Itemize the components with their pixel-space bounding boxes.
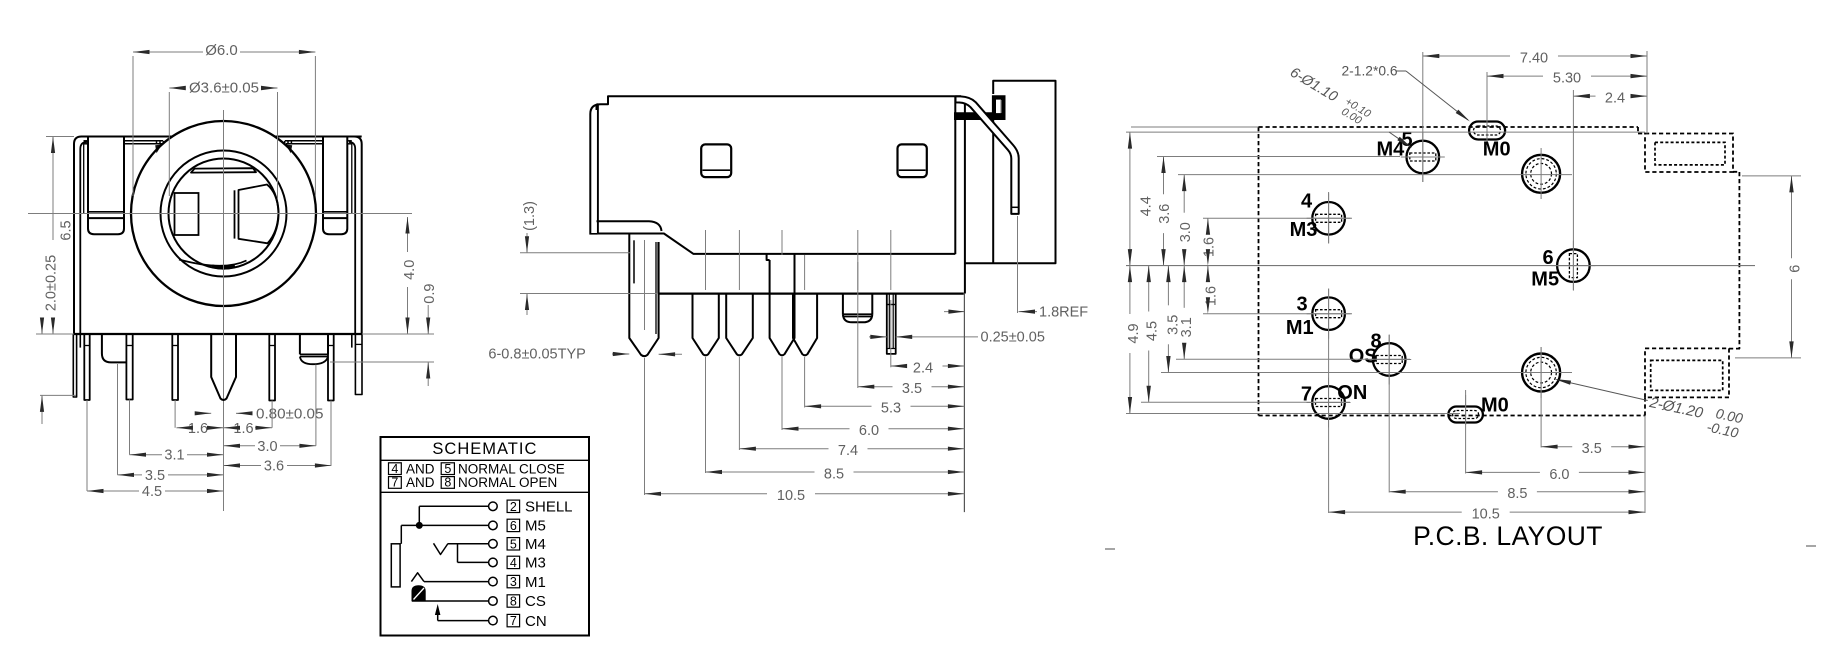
dim 3.0 pcb <box>1183 175 1185 213</box>
pcb bottom-right tab <box>1645 348 1729 397</box>
svg-text:3.5: 3.5 <box>145 468 165 484</box>
dim chain side <box>891 365 904 367</box>
pcb slot M0 bottom <box>1448 407 1483 423</box>
side view: right edge <box>954 96 956 254</box>
dim Ø3.6±0.05 <box>169 87 180 89</box>
svg-text:Ø3.6±0.05: Ø3.6±0.05 <box>189 80 259 97</box>
dim 4.5 <box>87 490 139 492</box>
svg-text:6.5: 6.5 <box>58 220 74 240</box>
svg-text:CS: CS <box>525 593 546 610</box>
dim 6.0 bottom pcb <box>1466 471 1540 473</box>
front view: right flange lug below body <box>300 334 328 354</box>
side ext lines from pins <box>644 358 646 495</box>
dim 3.1 <box>130 454 163 456</box>
front view: left mounting lug <box>88 137 124 235</box>
svg-text:M4: M4 <box>525 536 546 553</box>
dim 3.0 <box>224 445 256 447</box>
dim 0.80±0.05 <box>196 412 211 414</box>
front view: ring circle <box>161 151 287 277</box>
svg-text:8: 8 <box>510 595 517 609</box>
side view: M0 side lug <box>842 294 844 315</box>
dim Ø6.0 <box>133 51 203 53</box>
svg-text:4: 4 <box>391 462 398 476</box>
side view: PCB plate <box>965 81 1056 263</box>
side view: thin pin (0.25) <box>887 294 896 354</box>
side view: pin B <box>693 294 719 356</box>
dim 8.5 pcb <box>1389 491 1498 493</box>
pcb right edge <box>1738 172 1740 349</box>
pcb slot M0 top <box>1469 122 1505 140</box>
svg-text:M5: M5 <box>525 518 546 535</box>
side view ext line back edge <box>963 294 965 512</box>
svg-text:5.30: 5.30 <box>1553 70 1581 86</box>
svg-text:6.0: 6.0 <box>859 423 879 439</box>
front view: right mounting lug <box>323 137 347 235</box>
svg-text:3.1: 3.1 <box>164 448 184 464</box>
pcb ext lines horizontal <box>1131 126 1259 128</box>
svg-text:P.C.B. LAYOUT: P.C.B. LAYOUT <box>1413 521 1603 551</box>
svg-text:4.5: 4.5 <box>1145 321 1161 341</box>
svg-text:Ø6.0: Ø6.0 <box>205 42 238 59</box>
svg-text:1.8REF: 1.8REF <box>1039 305 1088 321</box>
side view: base plate bottom <box>658 293 964 295</box>
side view: pin E <box>793 294 817 356</box>
svg-text:7: 7 <box>391 476 398 490</box>
svg-text:3: 3 <box>1297 294 1308 316</box>
pcb hole 4/M3 <box>1312 202 1345 235</box>
svg-text:OS: OS <box>1349 346 1378 368</box>
svg-text:SHELL: SHELL <box>525 499 573 516</box>
svg-text:10.5: 10.5 <box>777 488 805 504</box>
svg-text:2.0±0.25: 2.0±0.25 <box>44 255 60 311</box>
svg-text:M1: M1 <box>525 574 546 591</box>
front view: hole circle (3.6) <box>169 159 279 269</box>
svg-text:0.80±0.05: 0.80±0.05 <box>256 406 323 423</box>
svg-text:M0: M0 <box>1481 394 1509 416</box>
dim 4.5 pcb <box>1148 266 1150 312</box>
front view: sleeve arcs at hole bottom <box>179 260 247 266</box>
pcb hole 3/M1 <box>1312 297 1345 330</box>
svg-text:8: 8 <box>444 476 451 490</box>
dim 0.25±0.05 <box>869 336 887 338</box>
svg-text:M1: M1 <box>1286 317 1314 339</box>
svg-text:1.6: 1.6 <box>1202 237 1218 257</box>
svg-text:4.0: 4.0 <box>402 260 418 280</box>
front view: tip contact bar <box>191 168 256 172</box>
side view: back wall <box>964 101 966 294</box>
svg-text:3.5: 3.5 <box>1582 441 1602 457</box>
svg-text:3.5: 3.5 <box>1166 315 1182 335</box>
dim 3.6 <box>224 465 262 467</box>
schematic terminals <box>489 502 498 511</box>
side view: pin C <box>726 294 753 356</box>
schematic header rows <box>389 463 402 475</box>
front view: left flange lug below body <box>102 334 127 362</box>
schematic CS cam (filled) <box>412 586 425 601</box>
dim 10.5 pcb <box>1329 511 1462 513</box>
pcb bottom edge <box>1644 397 1646 415</box>
svg-text:4.4: 4.4 <box>1139 196 1155 216</box>
svg-text:7.40: 7.40 <box>1520 50 1548 66</box>
front view: right contact <box>239 185 279 244</box>
front view: left contact window <box>175 193 199 235</box>
side view: bracket dark bar <box>954 112 1006 120</box>
svg-text:4: 4 <box>510 556 517 570</box>
svg-text:M3: M3 <box>1290 219 1318 241</box>
dim 1.6 lower <box>1207 266 1209 277</box>
svg-text:6: 6 <box>510 519 517 533</box>
side view: bracket hook <box>992 95 1006 120</box>
front view: jack body outline <box>89 136 172 138</box>
dim 3.6 pcb <box>1163 157 1165 195</box>
dim 6 right <box>1791 176 1793 258</box>
dim 4.4 <box>1129 132 1131 266</box>
side view: body outline <box>589 96 961 233</box>
dim 2.4 pcb <box>1573 95 1595 97</box>
svg-text:NORMAL CLOSE: NORMAL CLOSE <box>458 461 565 476</box>
schematic M1 contact <box>411 573 424 582</box>
svg-text:(1.3): (1.3) <box>522 201 538 231</box>
svg-text:M0: M0 <box>1483 138 1511 160</box>
svg-text:2.4: 2.4 <box>913 360 933 376</box>
pcb top-right tab <box>1645 134 1733 173</box>
pcb hole 8/OS <box>1373 343 1406 376</box>
svg-text:7.4: 7.4 <box>838 443 858 459</box>
dim 1.8REF <box>944 311 965 313</box>
front view: top flange band + ticks <box>124 140 163 142</box>
side view: front flange bottom steps <box>597 221 662 231</box>
pcb outline dashed <box>1259 126 1639 128</box>
svg-text:5: 5 <box>510 537 517 551</box>
svg-text:2-1.2*0.6: 2-1.2*0.6 <box>1342 64 1398 79</box>
dim 6.5 left <box>52 137 54 241</box>
side view: solder bracket strip (white filled) <box>956 96 1019 213</box>
svg-text:5: 5 <box>444 462 451 476</box>
dim 3.5 <box>118 474 143 476</box>
schematic NC contact (M4/M3) <box>434 543 449 554</box>
front view: bottom edge <box>74 333 362 335</box>
leader 6-Ø1.10 <box>1284 64 1373 130</box>
leader 2-Ø1.20 <box>1557 380 1648 401</box>
svg-text:ON: ON <box>1337 382 1367 404</box>
svg-text:3: 3 <box>510 575 517 589</box>
front view: center pin (0.8) <box>211 334 236 400</box>
pcb hole 6/M5 <box>1557 249 1590 282</box>
svg-text:5.3: 5.3 <box>881 401 901 417</box>
svg-text:SCHEMATIC: SCHEMATIC <box>432 440 537 458</box>
dim 5.30 <box>1487 75 1543 77</box>
dim 1.6 1.6 <box>176 427 188 429</box>
svg-text:3.0: 3.0 <box>257 439 277 455</box>
dim 3.5 left pcb <box>1167 266 1169 306</box>
dim 3.1 pcb <box>1183 266 1185 308</box>
side view: pin D <box>770 254 795 355</box>
side view: notch between middle pins <box>767 254 770 260</box>
svg-text:3.5: 3.5 <box>902 381 922 397</box>
dim 3.5 bottom pcb <box>1541 446 1572 448</box>
schematic table frame <box>381 437 590 636</box>
svg-text:2: 2 <box>510 500 517 514</box>
pcb hole 5/M4 <box>1407 141 1440 174</box>
dim 4.0 right <box>407 217 409 252</box>
schematic plug element <box>391 544 400 587</box>
svg-text:8.5: 8.5 <box>1507 486 1527 502</box>
svg-text:AND: AND <box>406 461 435 476</box>
svg-text:0.9: 0.9 <box>422 284 438 304</box>
svg-text:2.4: 2.4 <box>1605 90 1625 106</box>
pcb hole 7/ON <box>1312 386 1345 419</box>
schematic junction dot <box>416 522 422 528</box>
svg-text:7: 7 <box>510 614 517 628</box>
svg-text:3.0: 3.0 <box>1178 222 1194 242</box>
schematic CN arrow <box>437 609 439 621</box>
pcb mount circle bottom <box>1522 354 1560 392</box>
dim 4.9 pcb <box>1129 266 1131 314</box>
svg-text:4: 4 <box>1301 191 1313 213</box>
svg-text:3.6: 3.6 <box>1157 204 1173 224</box>
side view: windows <box>701 144 731 177</box>
svg-text:NORMAL OPEN: NORMAL OPEN <box>458 475 557 490</box>
dim 7.40 <box>1423 55 1510 57</box>
svg-text:4.9: 4.9 <box>1126 323 1142 343</box>
svg-text:6: 6 <box>1788 265 1804 273</box>
pcb mount circle top <box>1522 155 1560 193</box>
stray dashes <box>1105 548 1115 550</box>
front view: centerlines <box>28 213 412 215</box>
svg-text:8.5: 8.5 <box>824 466 844 482</box>
svg-text:4.5: 4.5 <box>142 484 162 500</box>
svg-text:6.0: 6.0 <box>1549 467 1569 483</box>
svg-text:M5: M5 <box>1531 268 1559 290</box>
dim 1.6 upper <box>1207 218 1209 227</box>
front view: outer circle (6.0) <box>131 121 316 306</box>
front ext lines below pins <box>86 400 88 491</box>
svg-text:CN: CN <box>525 613 547 630</box>
svg-text:AND: AND <box>406 475 435 490</box>
svg-text:0.25±0.05: 0.25±0.05 <box>981 330 1045 346</box>
svg-text:6-0.8±0.05TYP: 6-0.8±0.05TYP <box>488 347 585 363</box>
svg-text:3.6: 3.6 <box>264 459 284 475</box>
side view: pin A (front/shell pin) <box>629 234 658 356</box>
schematic wires <box>419 505 488 507</box>
svg-text:M3: M3 <box>525 555 546 572</box>
front view: pins below body <box>73 334 76 397</box>
svg-text:1.6: 1.6 <box>1204 286 1220 306</box>
pcb ext lines vertical <box>1422 52 1424 182</box>
